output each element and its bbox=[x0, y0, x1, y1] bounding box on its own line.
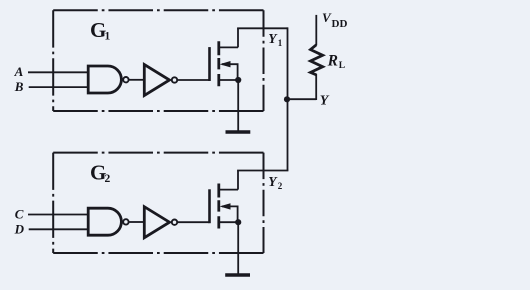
transistor Q1 body lead bbox=[222, 64, 238, 80]
svg-text:A: A bbox=[14, 64, 24, 79]
svg-text:Y: Y bbox=[320, 94, 330, 109]
svg-text:2: 2 bbox=[278, 181, 283, 191]
NAND bubble G2 bbox=[123, 219, 128, 224]
dash-dot box G1 top edge bbox=[53, 9, 263, 11]
svg-text:1: 1 bbox=[105, 31, 111, 43]
transistor Q2 drain riser bbox=[237, 171, 239, 190]
dash-dot box G1 right edge bbox=[263, 10, 265, 111]
transistor Q2 source riser bbox=[237, 222, 239, 274]
dash-dot box G2 bottom edge bbox=[53, 252, 263, 254]
transistor Q1 channel segments bbox=[217, 41, 220, 86]
transistor Q2 source lead bbox=[219, 221, 238, 223]
transistor Q2 body arrow bbox=[220, 203, 231, 209]
svg-text:DD: DD bbox=[332, 18, 348, 30]
inverter bubble G2 bbox=[172, 220, 177, 225]
svg-text:V: V bbox=[322, 10, 332, 25]
wire node Y to resistor bbox=[288, 98, 317, 100]
wire D bbox=[29, 228, 88, 230]
svg-text:R: R bbox=[327, 52, 338, 69]
wire A bbox=[28, 71, 88, 73]
svg-text:D: D bbox=[14, 222, 25, 237]
ground G2 bbox=[225, 273, 250, 276]
transistor Q1 drain riser bbox=[237, 28, 239, 47]
wire bus Y1 down to Y2 bbox=[287, 27, 289, 170]
transistor Q1 gate bar bbox=[208, 47, 211, 81]
transistor Q2 channel segments bbox=[217, 184, 220, 229]
wire inverter to MOSFET gate G2 bbox=[178, 221, 210, 223]
svg-text:1: 1 bbox=[278, 38, 283, 48]
NAND bubble G1 bbox=[123, 77, 128, 82]
transistor Q1 source riser bbox=[237, 80, 239, 132]
wire NAND to inverter G2 bbox=[129, 221, 144, 223]
wire NAND to inverter G1 bbox=[129, 79, 144, 81]
resistor RL lower lead bbox=[315, 74, 317, 100]
svg-text:B: B bbox=[14, 79, 24, 94]
wire inverter to MOSFET gate G1 bbox=[178, 79, 210, 81]
transistor Q2 drain lead bbox=[219, 189, 238, 191]
node Y dot bbox=[284, 96, 290, 102]
label Y2 bbox=[268, 174, 283, 191]
wire C bbox=[28, 214, 88, 216]
svg-text:2: 2 bbox=[105, 173, 111, 185]
label G2 bbox=[90, 161, 111, 186]
svg-text:L: L bbox=[339, 61, 345, 71]
wire VDD bbox=[315, 15, 317, 45]
resistor RL zigzag bbox=[311, 45, 323, 75]
inverter G1 bbox=[144, 65, 169, 96]
label VDD bbox=[322, 10, 347, 30]
junction dot Q2 source bbox=[235, 219, 241, 225]
transistor Q1 source lead bbox=[219, 79, 238, 81]
label Y1 bbox=[268, 31, 283, 48]
label G1 bbox=[90, 18, 111, 43]
ground G1 bbox=[226, 130, 251, 133]
junction dot Q1 source bbox=[235, 77, 241, 83]
dash-dot box G2 right edge bbox=[263, 153, 265, 253]
NAND gate G1 bbox=[88, 66, 121, 93]
transistor Q2 body lead bbox=[222, 206, 238, 222]
transistor Q1 body arrow bbox=[220, 61, 231, 67]
wire B bbox=[29, 86, 88, 88]
dash-dot box G2 left edge bbox=[52, 153, 54, 253]
transistor Q2 gate bar bbox=[208, 189, 211, 223]
NAND gate G2 bbox=[88, 208, 121, 235]
dash-dot box G1 left edge bbox=[52, 10, 54, 111]
dash-dot box G2 top edge bbox=[53, 152, 263, 154]
dash-dot box G1 bottom edge bbox=[53, 110, 263, 112]
wire drain Y1 to node bbox=[237, 27, 287, 29]
inverter G2 bbox=[144, 207, 169, 238]
wire drain Y2 to bus bbox=[237, 170, 288, 172]
inverter bubble G1 bbox=[172, 77, 177, 82]
svg-text:C: C bbox=[15, 206, 24, 221]
label RL bbox=[327, 52, 345, 71]
transistor Q1 drain lead bbox=[219, 46, 238, 48]
